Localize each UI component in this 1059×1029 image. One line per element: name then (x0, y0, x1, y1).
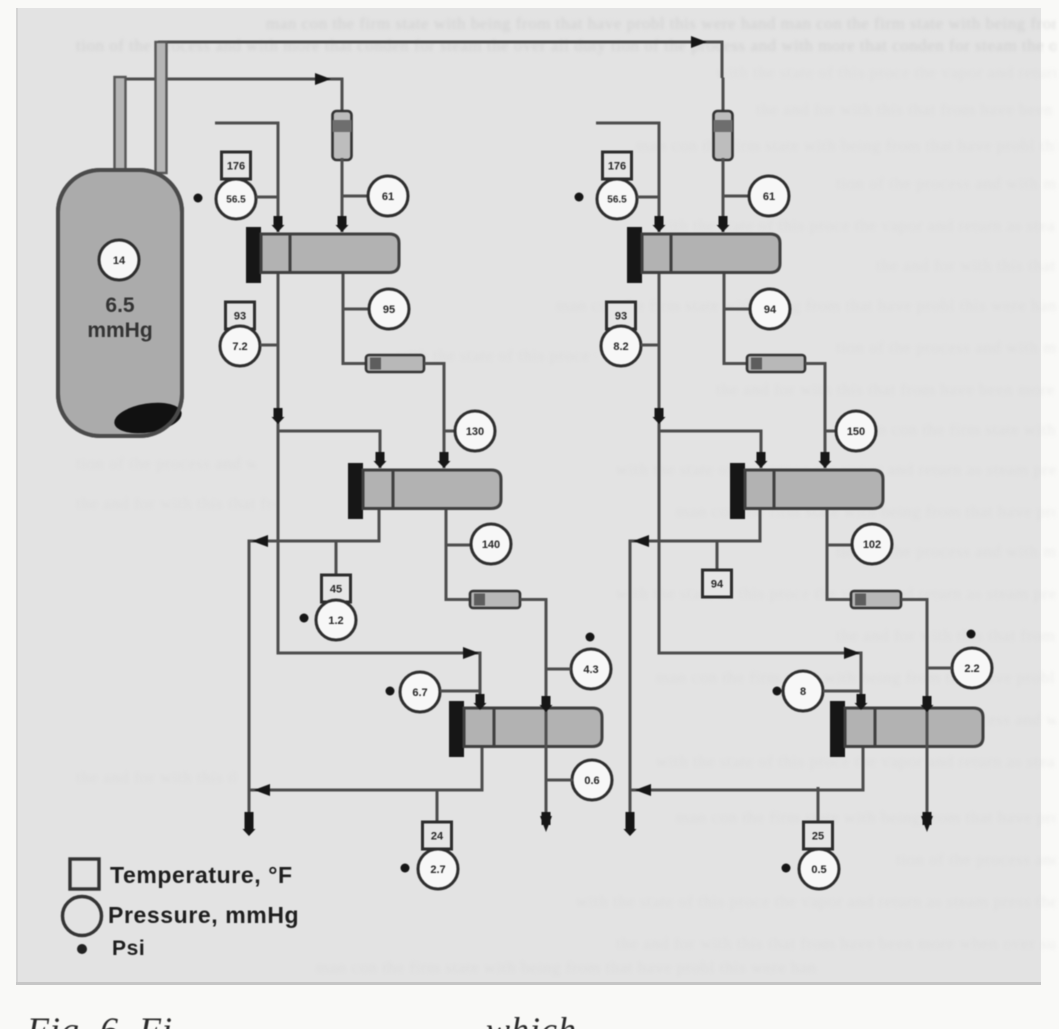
pressure gauge 8 (783, 671, 823, 711)
legend temperature square (70, 859, 99, 889)
pipe: ejector A3 discharge (520, 598, 548, 601)
condenser B3 tube-sheet head (830, 701, 845, 757)
flow arrow into condenser 2 (757, 452, 766, 463)
svg-text:93: 93 (615, 310, 627, 322)
flow arrow into condenser A3 (476, 694, 485, 705)
svg-text:61: 61 (382, 191, 394, 203)
svg-text:6.7: 6.7 (412, 687, 427, 699)
svg-text:8: 8 (800, 686, 806, 698)
psi dot at TI-A1 (194, 194, 203, 203)
stem 4.3 to line (546, 668, 571, 671)
flow arrow (923, 696, 932, 707)
flow arrow into condenser 2 (821, 452, 830, 463)
pressure gauge 102 B (852, 524, 892, 564)
pipe: drop into condenser 2 channel (760, 430, 763, 469)
pipe: horizontal feed to condenser A3 (277, 652, 482, 655)
flow arrow (542, 696, 551, 707)
stem 2.2 to line (927, 667, 952, 670)
pipe: discharge drop to condenser 2 (443, 362, 446, 468)
stem 8 to line (823, 690, 861, 693)
ejector JB1 (vertical inline) (714, 111, 733, 160)
pipe: condenser A1 vapour outlet (342, 270, 345, 365)
vessel V1 (evaporator body) (58, 170, 182, 436)
arrowhead lower condensate line (635, 784, 651, 796)
svg-text:6.5: 6.5 (105, 294, 135, 317)
pipe: condenser B2 vapour outlet (826, 506, 829, 601)
pipe: into ejector A1 (341, 78, 344, 115)
svg-text:176: 176 (608, 160, 626, 172)
arrowhead overhead line (691, 36, 707, 48)
gauge: vessel pressure 14 (99, 240, 139, 280)
pipe elbow (343, 362, 368, 365)
pipe: drop into condenser A3 channel (479, 652, 482, 709)
pipe: ejector B1 discharge (722, 158, 725, 232)
condenser A2 channel divider (392, 470, 395, 509)
flow arrow into condenser B1 (719, 216, 728, 227)
pressure gauge 61 (368, 176, 408, 216)
svg-text:102: 102 (863, 539, 881, 551)
pressure gauge PI-B1 (597, 179, 637, 219)
pressure gauge PI-B2 (601, 326, 641, 366)
condenser B2 shell (745, 470, 883, 509)
temperature box TI-B3 (703, 570, 732, 597)
psi dot at PI 8 (773, 687, 782, 696)
pipe: condensate horizontal (249, 540, 381, 543)
svg-text:45: 45 (330, 583, 342, 595)
pipe: condenser B3 tail drain (926, 745, 929, 812)
pressure gauge PI-A1 (216, 179, 256, 219)
condenser A1 channel divider (289, 234, 292, 273)
condenser B3 channel divider (874, 708, 877, 747)
stem to gauge PA3 (444, 430, 456, 433)
pipe: condenser B2 condensate drop (759, 506, 762, 543)
svg-text:Temperature, °F: Temperature, °F (110, 862, 293, 888)
discharge arrow down (626, 812, 635, 831)
pipe: discharge drop to condenser 3 (545, 598, 548, 712)
pipe: branch to condenser A2 channel (278, 430, 380, 433)
pressure gauge PI-A2 (220, 326, 260, 366)
condenser A1 tube-sheet head (246, 227, 261, 283)
pressure gauge 2.7 (418, 849, 458, 889)
pressure gauge 6.7 (400, 672, 440, 712)
svg-text:130: 130 (466, 426, 484, 438)
stem to gauge PA1 (342, 195, 368, 198)
svg-text:56.5: 56.5 (226, 195, 246, 206)
pipe: ejector B3 discharge (901, 598, 929, 601)
pressure gauge 140 (471, 524, 511, 564)
tail discharge arrow (540, 816, 552, 832)
svg-text:25: 25 (812, 830, 824, 842)
stem to gauge PB1 (723, 195, 749, 198)
pipe: condenser A3 tail drain (545, 745, 548, 812)
stem TI-A1 to line (256, 196, 278, 199)
pipe: train A air suction horizontal (215, 122, 278, 125)
pipe: into ejector B1 (722, 78, 725, 115)
svg-text:Pressure, mmHg: Pressure, mmHg (108, 902, 299, 928)
svg-text:61: 61 (763, 191, 775, 203)
svg-text:150: 150 (847, 426, 865, 438)
pipe: ejector A1 discharge (341, 158, 344, 232)
legend pressure circle (63, 897, 102, 936)
condenser B1 shell (642, 234, 780, 273)
pressure gauge 150 B (836, 411, 876, 451)
pipe: horizontal feed to condenser B3 (658, 652, 863, 655)
flow arrow into condenser 2 (376, 452, 385, 463)
svg-text:140: 140 (482, 539, 500, 551)
pipe: condenser A3 condensate drop (481, 745, 484, 792)
pipe: condenser B1 drain down left (658, 270, 661, 655)
pressure gauge 61 B (749, 176, 789, 216)
pipe: train B hotwell downcomer (629, 540, 632, 817)
svg-text:14: 14 (113, 255, 126, 267)
pipe: condensate horizontal lower (249, 789, 484, 792)
pipe: condenser B3 condensate drop (862, 745, 865, 792)
arrowhead on feed line (463, 647, 479, 659)
pressure gauge 1.2 (316, 600, 356, 640)
pipe: discharge drop to condenser 3 (926, 598, 929, 712)
vessel V1 liquid boot (black ellipse) (112, 398, 184, 437)
condenser A3 channel divider (493, 708, 496, 747)
condenser B1 channel divider (670, 234, 673, 273)
stem to TI-B3 (716, 541, 719, 571)
stem to gauge PA2 (343, 308, 369, 311)
stem TI-A2 to line (260, 344, 278, 347)
pressure gauge 0.6 (572, 760, 612, 800)
condenser A2 tube-sheet head (348, 463, 363, 519)
pipe: condensate horizontal lower (630, 789, 865, 792)
condenser A2 shell (363, 470, 501, 509)
pipe: ejector B3 discharge crossing shell (926, 704, 929, 748)
pipe elbow (827, 598, 852, 601)
arrowhead suction line (315, 73, 331, 85)
caption fragment (cut by page edge) (27, 1009, 173, 1029)
flow arrow into condenser B1 top (655, 216, 664, 227)
pressure gauge 94 B (750, 289, 790, 329)
stem TI-B1 to line (637, 196, 659, 199)
flow arrow into condenser A1 (338, 216, 347, 227)
pipe: drop into condenser 2 channel (379, 430, 382, 469)
arrowhead on condensate line (252, 535, 268, 547)
arrowhead on condensate line (633, 535, 649, 547)
psi dot at TI-B1 (575, 193, 584, 202)
stem TI-B2 to line (641, 344, 659, 347)
condenser B2 channel divider (773, 470, 776, 509)
temperature box TI-A2 (226, 302, 255, 329)
temperature box TI-A1 (222, 152, 251, 179)
svg-text:93: 93 (234, 310, 246, 322)
svg-text:56.5: 56.5 (607, 195, 627, 206)
svg-text:mmHg: mmHg (87, 319, 152, 342)
stem to gauge PB4 (827, 544, 852, 547)
pipe elbow (446, 598, 471, 601)
stem to TI-A3 (335, 541, 338, 576)
pressure gauge 130 (455, 411, 495, 451)
pipe elbow (724, 362, 749, 365)
svg-text:94: 94 (764, 304, 777, 316)
pipe: ejector B2 discharge (805, 362, 827, 365)
vessel nozzle pipe (left) (115, 77, 126, 173)
flow arrow on drain (655, 408, 664, 419)
svg-text:2.7: 2.7 (430, 864, 445, 876)
temperature box TI-A3 (322, 575, 351, 602)
flow arrow into condenser 2 (440, 452, 449, 463)
ejector JB3 (horizontal inline) (851, 591, 901, 608)
svg-text:24: 24 (431, 830, 444, 842)
svg-text:Psi: Psi (112, 937, 145, 960)
arrowhead lower condensate line (254, 784, 270, 796)
condenser A1 shell (261, 234, 399, 273)
pressure gauge 4.3 (571, 649, 611, 689)
pipe: ejector A3 discharge crossing shell (545, 704, 548, 748)
svg-text:95: 95 (383, 304, 395, 316)
condenser A3 shell (464, 708, 602, 747)
flow arrow into condenser B3 (857, 694, 866, 705)
ejector JA2 (horizontal inline) (366, 355, 424, 372)
psi dot at PI-A3 (300, 614, 309, 623)
ejector JA1 (vertical inline) (333, 111, 352, 160)
pipe: condenser B1 vapour outlet (723, 270, 726, 365)
pipe: train B air suction horizontal (596, 122, 659, 125)
pipe: vessel suction to ejector A1 (116, 78, 342, 81)
psi dot at PI 6.7 (386, 687, 395, 696)
flow arrow into condenser A1 top (274, 216, 283, 227)
svg-text:7.2: 7.2 (232, 341, 247, 353)
pipe: condenser A2 vapour outlet (445, 506, 448, 601)
pipe: condenser A2 condensate drop (378, 506, 381, 543)
svg-text:4.3: 4.3 (583, 664, 598, 676)
psi dot at PI 4.3 (586, 633, 595, 642)
pressure gauge 0.5 (799, 849, 839, 889)
pipe: train A suction downcomer (277, 122, 280, 233)
svg-text:2.2: 2.2 (964, 663, 979, 675)
pressure gauge 2.2 (952, 648, 992, 688)
svg-text:0.6: 0.6 (584, 775, 599, 787)
svg-text:94: 94 (711, 578, 724, 590)
discharge arrow down (245, 812, 254, 831)
pipe: ejector A2 discharge (424, 362, 446, 365)
svg-text:8.2: 8.2 (613, 341, 628, 353)
temperature box TI-B2 (607, 302, 636, 329)
svg-text:0.5: 0.5 (811, 864, 826, 876)
temperature box TI-B1 (603, 152, 632, 179)
pipe: train A hotwell downcomer (248, 540, 251, 817)
pipe: overhead drop to ejector B1 (721, 41, 724, 79)
condenser B3 shell (845, 708, 983, 747)
stem to gauge PB3 (825, 430, 837, 433)
ejector JA3 (horizontal inline) (470, 591, 520, 608)
psi dot at PI 0.5 (782, 864, 791, 873)
stem to TI-A5 (436, 790, 439, 823)
arrowhead on feed line (844, 647, 860, 659)
psi dot at PI 2.7 (401, 864, 410, 873)
pipe: train B suction downcomer (658, 122, 661, 233)
stem to gauge PA4 (446, 544, 471, 547)
stem 6.7 to line (440, 690, 480, 693)
pressure gauge 95 (369, 289, 409, 329)
stem 0.6 to line (546, 779, 573, 782)
pipe: condensate horizontal (630, 540, 762, 543)
condenser B2 tube-sheet head (730, 463, 745, 519)
pipe: branch to condenser B2 channel (659, 430, 761, 433)
legend psi dot (77, 944, 87, 954)
pipe: discharge drop to condenser 2 (824, 362, 827, 468)
flow arrow on drain (274, 408, 283, 419)
pipe: condenser A1 drain down left (277, 270, 280, 655)
svg-text:1.2: 1.2 (328, 615, 343, 627)
stem to gauge PB2 (724, 308, 750, 311)
condenser B1 tube-sheet head (627, 227, 642, 283)
svg-text:176: 176 (227, 160, 245, 172)
pipe: drop into condenser B3 channel (860, 652, 863, 709)
temperature box TI-A5 (423, 822, 452, 849)
ejector JB2 (horizontal inline) (747, 355, 805, 372)
psi dot at PI 2.2 (967, 630, 976, 639)
tail discharge arrow (921, 816, 933, 832)
vessel nozzle pipe (right) (156, 42, 167, 173)
temperature box TI-B5 (804, 822, 833, 849)
stem to TI-B5 (817, 787, 820, 823)
pipe: overhead line to train B (158, 41, 722, 44)
condenser A3 tube-sheet head (449, 701, 464, 757)
